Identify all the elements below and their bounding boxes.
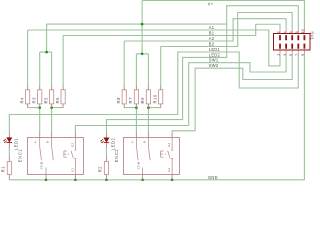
junction GND COM1	[45, 179, 48, 182]
svg-text:E2: E2	[70, 143, 74, 147]
resistor R9	[140, 86, 150, 108]
svg-text:8: 8	[295, 31, 299, 33]
connector SV1	[274, 28, 315, 56]
svg-text:1k: 1k	[44, 100, 48, 104]
wire net SW2	[172, 56, 292, 133]
svg-text:SW1: SW1	[209, 58, 219, 63]
wire net B2	[161, 13, 293, 87]
junction GND SW2	[171, 179, 174, 182]
svg-text:B: B	[46, 141, 50, 143]
wire node B-phase encoder2	[148, 108, 160, 133]
svg-text:6: 6	[289, 31, 293, 33]
wire net A2	[124, 19, 286, 87]
junction node B1 phase	[50, 106, 53, 109]
svg-text:GND: GND	[208, 175, 218, 180]
svg-text:B: B	[142, 141, 146, 143]
svg-text:SW2: SW2	[209, 63, 219, 68]
wire node A-phase encoder1	[28, 108, 40, 133]
junction node A2 phase	[135, 106, 138, 109]
wire net A1	[28, 30, 280, 86]
svg-text:R6: R6	[55, 97, 60, 104]
resistor R1	[0, 156, 11, 179]
junction V+ top	[141, 23, 144, 26]
encoder ENC1	[17, 132, 83, 180]
wire net LED2	[106, 6, 298, 133]
junction GND SW1	[74, 179, 77, 182]
svg-text:R4: R4	[19, 97, 24, 104]
wire node B-phase encoder1	[52, 108, 64, 133]
svg-text:LED2: LED2	[111, 138, 116, 151]
svg-text:SV1: SV1	[310, 31, 315, 40]
svg-text:R2: R2	[98, 166, 103, 173]
resistor R10	[153, 86, 163, 108]
resistor R6	[55, 86, 65, 108]
junction node A1 phase	[38, 106, 41, 109]
svg-text:10: 10	[301, 29, 305, 33]
svg-text:4: 4	[283, 31, 287, 33]
wire net GND	[9, 56, 304, 180]
svg-text:A1: A1	[209, 25, 215, 30]
svg-text:LED2: LED2	[209, 52, 221, 57]
svg-text:B2: B2	[209, 41, 215, 46]
svg-text:COM: COM	[40, 161, 44, 169]
wire net LED1	[9, 52, 298, 132]
svg-text:E1: E1	[70, 168, 74, 172]
svg-text:9: 9	[301, 54, 305, 56]
junction GND COM2	[141, 179, 144, 182]
svg-text:5: 5	[289, 54, 293, 56]
svg-text:R1: R1	[0, 166, 5, 173]
svg-text:ENC1: ENC1	[17, 149, 22, 162]
svg-text:A: A	[34, 141, 38, 143]
junction GND R2	[105, 179, 108, 182]
junction V+ group1	[45, 51, 48, 54]
svg-text:ENC2: ENC2	[114, 149, 119, 162]
resistor R7	[128, 86, 138, 108]
wire LED1 to R1	[8, 148, 10, 157]
resistor R2	[98, 156, 109, 179]
resistor R3	[32, 86, 42, 108]
encoder ENC2	[114, 132, 180, 180]
svg-text:COM: COM	[136, 161, 140, 169]
svg-text:1: 1	[277, 54, 281, 56]
wire net V+	[40, 1, 305, 87]
svg-text:E2: E2	[167, 143, 171, 147]
resistor R5	[43, 86, 53, 108]
svg-text:R8: R8	[116, 97, 121, 104]
junction node B2 phase	[147, 106, 150, 109]
svg-text:R7: R7	[128, 97, 133, 104]
svg-text:1k: 1k	[140, 100, 144, 104]
svg-text:A2: A2	[209, 36, 215, 41]
wire node A-phase encoder2	[124, 108, 136, 133]
resistor R8	[116, 86, 126, 108]
LED LED1	[4, 132, 19, 150]
junction V+ group2	[141, 53, 144, 56]
svg-text:LED1: LED1	[209, 47, 221, 52]
LED LED2	[101, 132, 116, 150]
svg-text:B1: B1	[209, 30, 215, 35]
resistor R4	[19, 86, 29, 108]
svg-text:7: 7	[295, 54, 299, 56]
wire LED2 to R2	[105, 148, 107, 157]
wire net SW1	[75, 56, 286, 133]
svg-text:LED1: LED1	[14, 138, 19, 151]
svg-text:A: A	[130, 141, 134, 143]
svg-text:2: 2	[277, 31, 281, 33]
svg-text:E1: E1	[167, 168, 171, 172]
svg-text:R3: R3	[32, 97, 37, 104]
wire net B1	[63, 24, 280, 86]
svg-text:V+: V+	[208, 1, 214, 6]
svg-text:R10: R10	[153, 94, 158, 103]
svg-text:3: 3	[283, 54, 287, 56]
